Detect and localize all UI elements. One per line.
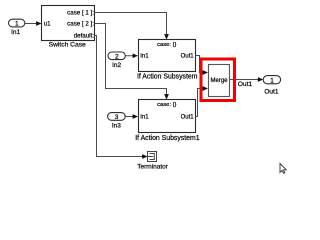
svg-text:Switch Case: Switch Case <box>49 42 86 49</box>
svg-text:If Action Subsystem1: If Action Subsystem1 <box>135 135 200 142</box>
wire If Action Subsystem1 to Merge <box>196 89 205 117</box>
mouse cursor <box>280 164 286 174</box>
wire default to Terminator <box>95 36 144 157</box>
svg-text:case [ 2 ]:: case [ 2 ]: <box>67 21 94 28</box>
svg-text:1: 1 <box>15 21 19 28</box>
svg-text:case [ 1 ]:: case [ 1 ]: <box>67 10 94 17</box>
svg-text:In1: In1 <box>140 54 149 60</box>
svg-text:Out1: Out1 <box>181 54 195 60</box>
svg-text:1: 1 <box>270 77 274 84</box>
svg-text:default:: default: <box>74 33 95 40</box>
block If Action Subsystem <box>139 40 196 72</box>
svg-text:In1: In1 <box>11 29 20 36</box>
svg-text:Merge: Merge <box>210 78 228 84</box>
block If Action Subsystem1 <box>139 100 196 133</box>
svg-text:2: 2 <box>115 53 119 60</box>
svg-text:In1: In1 <box>140 115 149 121</box>
inport In2 <box>108 52 125 60</box>
svg-text:Out1: Out1 <box>238 81 253 88</box>
wire If Action Subsystem to Merge <box>196 56 205 73</box>
wire In2 to If Action Subsystem <box>125 55 134 57</box>
block Merge <box>209 65 230 97</box>
wire In3 to If Action Subsystem1 <box>125 116 134 118</box>
block Switch Case <box>42 6 95 41</box>
wire Merge to Out1 <box>230 79 260 81</box>
red highlight around Merge <box>201 59 235 101</box>
svg-text:Out1: Out1 <box>264 88 278 95</box>
svg-text:3: 3 <box>115 114 119 121</box>
svg-text:In3: In3 <box>112 122 121 129</box>
inport In3 <box>108 113 126 121</box>
wire In1 to Switch Case <box>25 23 38 25</box>
wire case1 to If Action Subsystem <box>95 13 167 36</box>
svg-text:case: {}: case: {} <box>157 102 176 108</box>
svg-text:case: {}: case: {} <box>157 42 176 48</box>
wire case2 to If Action Subsystem1 <box>95 24 167 96</box>
svg-text:u1: u1 <box>44 22 51 28</box>
svg-text:In2: In2 <box>112 62 121 69</box>
outport Out1 <box>263 76 280 84</box>
block Terminator <box>148 152 157 162</box>
svg-text:Out1: Out1 <box>181 115 195 121</box>
svg-text:If Action Subsystem: If Action Subsystem <box>137 74 198 81</box>
svg-text:Terminator: Terminator <box>137 164 169 171</box>
inport In1 <box>9 19 25 27</box>
